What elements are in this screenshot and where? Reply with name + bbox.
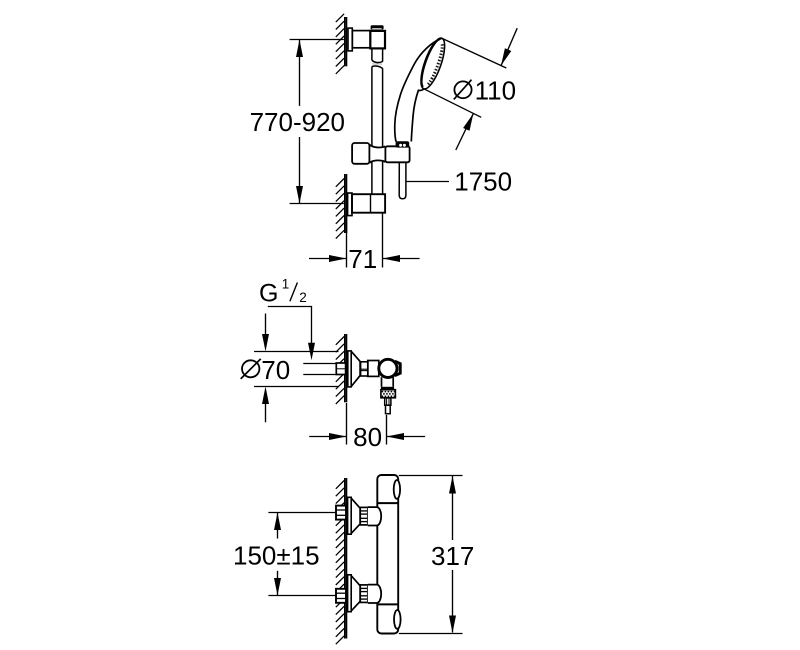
wall W3 [345, 478, 347, 639]
upper union nut [360, 507, 368, 525]
leader 1750 [406, 181, 449, 183]
bracket B1 arm [352, 31, 370, 48]
svg-text:150±15: 150±15 [233, 541, 320, 571]
wall W1 lower segment [345, 174, 347, 233]
svg-text:80: 80 [353, 422, 382, 452]
svg-text:770-920: 770-920 [250, 107, 345, 137]
hose connector [385, 398, 391, 405]
svg-text:2: 2 [299, 290, 307, 305]
bracket B2 arm+block [352, 194, 385, 213]
bracket B1 flange [348, 28, 352, 51]
G1/2 reference line [268, 307, 312, 344]
knurled nut [381, 390, 396, 398]
slider holder left knob [352, 143, 369, 164]
body joint line lower [377, 603, 398, 605]
lower union escutcheon [348, 575, 352, 612]
outlet neck [381, 377, 383, 387]
dimension Ø110 [424, 28, 517, 150]
rail segment lower [372, 162, 383, 194]
rail segment upper (with break) [372, 48, 383, 147]
hatch wall W3 [336, 481, 344, 645]
hatch wall W2 [336, 337, 344, 405]
svg-text:1750: 1750 [454, 166, 512, 196]
handle ellipse upper [394, 480, 400, 499]
svg-text:70: 70 [261, 355, 290, 385]
upper union hex nipple [336, 506, 346, 520]
rail break squiggle [373, 63, 383, 66]
escutcheon cone [351, 351, 360, 386]
union body [368, 361, 379, 377]
dimension 317 [399, 476, 463, 634]
bracket B2 flange [348, 193, 352, 216]
dimension 80 [309, 403, 425, 445]
upper union stub and dome [368, 507, 381, 525]
ball joint [379, 359, 397, 377]
escutcheon base [348, 351, 351, 387]
handle end cap in holder [396, 141, 410, 147]
lower union nut [360, 585, 368, 603]
wall W2 [345, 334, 347, 402]
dimension 150±15 [268, 513, 336, 596]
dimension 71 [309, 213, 420, 267]
svg-text:G: G [259, 279, 278, 307]
thermostat body [377, 475, 398, 634]
dimension Ø70 [254, 314, 339, 423]
hand shower head shell and handle left edge [395, 38, 442, 142]
svg-text:1: 1 [282, 276, 290, 291]
wall W1 upper segment [345, 17, 347, 66]
lower union hex nipple [336, 589, 346, 603]
body joint line upper [377, 502, 398, 504]
union nut [361, 362, 368, 376]
upper union escutcheon [348, 497, 352, 534]
supply pipe behind wall [303, 363, 336, 374]
slider holder waist [369, 145, 385, 148]
outlet nut dark band [381, 387, 394, 390]
hatch upper wall [336, 14, 344, 74]
dimension 770-920 [290, 40, 344, 204]
hex nipple behind wall [336, 363, 345, 375]
svg-text:71: 71 [348, 244, 377, 274]
hose [399, 162, 406, 198]
hatch lower wall [336, 179, 344, 239]
lower union stub and dome [368, 585, 381, 603]
handle ellipse lower [394, 610, 401, 629]
slider holder body [385, 146, 409, 162]
svg-text:110: 110 [475, 75, 516, 105]
hand shower face (ellipse with nozzle band) [416, 35, 449, 91]
svg-text:317: 317 [431, 541, 474, 571]
hand shower handle right edge [411, 89, 424, 142]
bracket B1 block [370, 31, 385, 49]
rail end cap [371, 25, 384, 29]
